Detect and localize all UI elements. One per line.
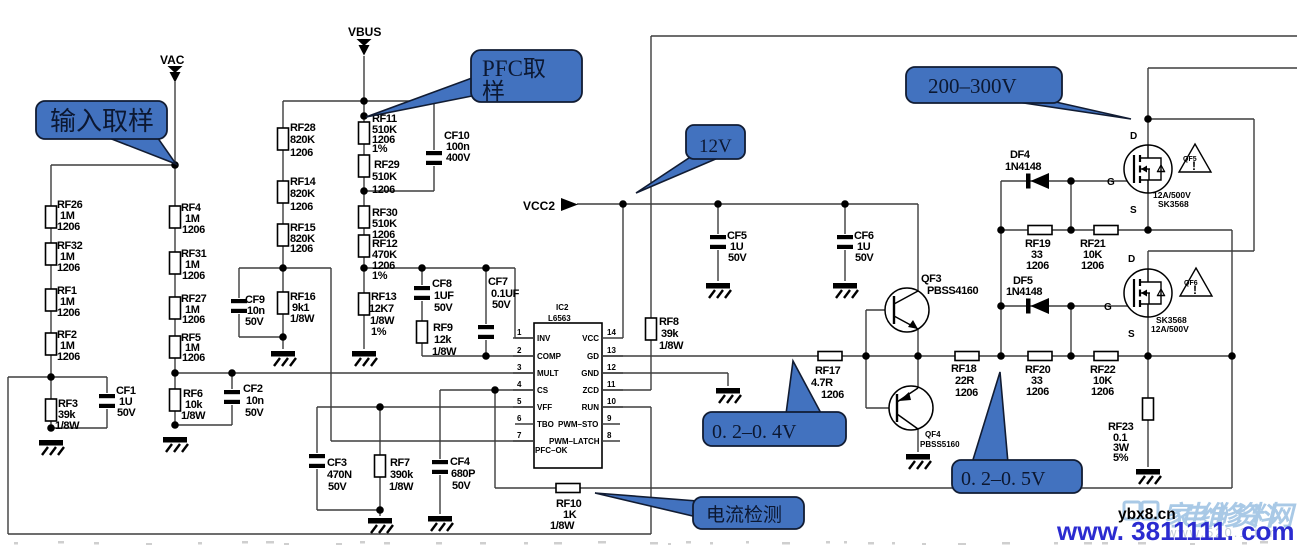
resistor RF2: [46, 329, 81, 363]
svg-text:QF5: QF5: [1183, 156, 1197, 163]
wire RUN drop: [602, 407, 651, 534]
wire col4 tap row to INV: [364, 268, 534, 338]
resistor RF26: [46, 199, 83, 233]
svg-text:S: S: [1130, 205, 1137, 216]
svg-text:12: 12: [607, 363, 616, 372]
node RF3 bottom: [47, 424, 55, 432]
callout 12V: [636, 125, 745, 193]
pin 9 PWM-STO: [558, 414, 620, 429]
resistor RF10: [550, 484, 582, 533]
callout 0.2-0.5V: [952, 372, 1082, 493]
node RF20 RF22 mid: [1067, 352, 1075, 360]
resistor RF18: [951, 352, 979, 400]
node base bus tap: [862, 352, 870, 360]
svg-text:CS: CS: [537, 386, 549, 395]
resistor RF23: [1108, 398, 1154, 464]
ground under CF6: [833, 283, 858, 298]
resistor RF14: [278, 176, 317, 213]
wire QF3 emitter to junction: [917, 329, 919, 356]
svg-text:0. 2–0. 5V: 0. 2–0. 5V: [961, 468, 1046, 490]
svg-text:14: 14: [607, 328, 616, 337]
node right bus tap: [1228, 352, 1236, 360]
node VAC port: [160, 53, 185, 83]
svg-text:VBUS: VBUS: [348, 25, 381, 39]
bottom cropped text row: [14, 541, 1268, 545]
node RF7 bottom: [376, 506, 384, 514]
svg-text:1N4148: 1N4148: [1006, 286, 1042, 298]
resistor RF29: [359, 155, 400, 196]
svg-text:RF28820K1206: RF28820K1206: [290, 122, 316, 159]
wire MULT line pin3: [175, 372, 534, 374]
svg-text:SK3568: SK3568: [1158, 199, 1189, 209]
wire CF6 leg: [844, 204, 846, 281]
wire CF5 leg: [717, 204, 719, 281]
node drain1: [1144, 115, 1152, 123]
node VBUS port: [348, 25, 381, 56]
svg-text:QF3: QF3: [921, 273, 941, 285]
svg-text:IC2: IC2: [556, 303, 569, 312]
wire base bus QF3 QF4: [866, 310, 897, 408]
svg-text:PWM–STO: PWM–STO: [558, 420, 598, 429]
warning triangle QF6: [1180, 268, 1212, 297]
svg-text:G: G: [1104, 302, 1112, 313]
node CF7 bottom COMP: [482, 352, 490, 360]
wire drain parallel loop: [1148, 119, 1254, 251]
wire CF9 branch: [239, 268, 283, 337]
svg-text:5: 5: [517, 397, 522, 406]
svg-text:RUN: RUN: [582, 403, 600, 412]
node drive column top: [997, 352, 1005, 360]
node RF7 top VFF: [376, 403, 384, 411]
wire gate1 divider link: [1070, 181, 1072, 230]
ground IC GND pin: [716, 388, 741, 403]
wire COMP line pin2: [422, 355, 534, 357]
ground under RF16: [271, 351, 296, 366]
node CS sense tap: [491, 386, 499, 394]
svg-text:www. 3811111. com: www. 3811111. com: [1056, 516, 1295, 545]
wire VCC2 rail: [577, 203, 918, 205]
wire RF7 leg: [379, 407, 381, 516]
svg-text:CF81UF50V: CF81UF50V: [432, 278, 454, 314]
resistor RF30: [359, 206, 398, 241]
svg-text:CF10100n400V: CF10100n400V: [444, 130, 471, 164]
diode DF4 1N4148: [1005, 149, 1049, 189]
wire CF2 branch: [175, 373, 232, 425]
wire CF4 branch: [439, 390, 441, 514]
capacitor CF5: [709, 230, 747, 264]
wire QF4 emitter lead: [917, 356, 919, 388]
wire QF4 collector to ground: [917, 429, 919, 452]
resistor RF1: [46, 285, 81, 319]
svg-text:0. 2–0. 4V: 0. 2–0. 4V: [712, 421, 797, 443]
svg-text:GND: GND: [581, 369, 599, 378]
pin 10 RUN: [582, 397, 623, 412]
callout input sample: [36, 101, 176, 164]
node RF19 RF21 mid: [1067, 226, 1075, 234]
svg-text:PFC取: PFC取: [482, 56, 546, 81]
svg-text:电流检测: 电流检测: [706, 504, 782, 526]
svg-text:3: 3: [517, 363, 522, 372]
svg-text:L6563: L6563: [548, 314, 571, 323]
wire column 1 spine: [50, 165, 52, 428]
ground under RF7: [368, 518, 393, 533]
svg-text:2: 2: [517, 346, 522, 355]
svg-text:RF2110K1206: RF2110K1206: [1080, 238, 1106, 272]
svg-text:VCC: VCC: [582, 334, 599, 343]
node DF5 left: [997, 302, 1005, 310]
svg-text:INV: INV: [537, 334, 551, 343]
svg-text:12V: 12V: [699, 136, 732, 157]
callout 0.2-0.4V: [703, 361, 846, 446]
wire QF3 collector riser: [917, 204, 919, 291]
capacitor CF10: [425, 130, 471, 166]
wire CS sense drop: [494, 390, 496, 488]
capacitor CF6: [836, 230, 874, 264]
resistor RF3: [46, 398, 81, 432]
node RF19 left: [997, 226, 1005, 234]
wire bottom bus: [8, 533, 651, 535]
wire RF10 row current sense: [495, 487, 1232, 489]
svg-text:1N4148: 1N4148: [1005, 161, 1041, 173]
node input sample junction: [171, 161, 179, 169]
svg-text:QF6: QF6: [1184, 280, 1198, 287]
svg-text:10: 10: [607, 397, 616, 406]
wire VFF line pin5: [317, 406, 534, 408]
wire DF4 gate row: [1001, 180, 1136, 182]
svg-text:VAC: VAC: [160, 53, 185, 67]
capacitor CF8: [413, 278, 454, 314]
resistor RF31: [170, 248, 207, 282]
wire CS line pin4: [440, 389, 534, 391]
capacitor CF4: [431, 456, 475, 492]
svg-text:TBO: TBO: [537, 420, 554, 429]
resistor RF21: [1080, 226, 1118, 273]
callout current detect: [595, 493, 804, 529]
transistor Q1 QF3 PBSS4160: [885, 273, 979, 332]
node gate2 junction: [1067, 302, 1075, 310]
node RF16 bottom: [279, 333, 287, 341]
diode DF5 1N4148: [1006, 275, 1049, 314]
resistor RF32: [46, 240, 83, 274]
wire RF13 leg: [363, 268, 365, 349]
wire drive node column x1001: [1000, 181, 1002, 356]
svg-text:PFC–OK: PFC–OK: [535, 446, 568, 455]
pin 8: [602, 431, 620, 441]
resistor RF27: [170, 293, 207, 326]
svg-text:CF910n50V: CF910n50V: [245, 294, 265, 328]
resistor RF4: [170, 202, 206, 236]
node RF6 bottom: [171, 421, 179, 429]
node CF8 top: [418, 264, 426, 272]
wire GD drive row pin13: [602, 355, 1232, 357]
wire source row extension: [1148, 230, 1232, 488]
svg-text:RF14820K1206: RF14820K1206: [290, 176, 317, 213]
capacitor CF3: [308, 453, 352, 493]
ground under CF4: [428, 516, 453, 531]
svg-text:D: D: [1128, 254, 1135, 265]
resistor RF5: [170, 332, 206, 364]
pin 7 PWM-LATCH PFC-OK: [513, 431, 600, 455]
pin 3 MULT: [513, 363, 559, 378]
transistor Q2 QF4 PBSS5160: [889, 386, 960, 449]
op-amp U1 IC2 L6563 body: [534, 303, 602, 468]
resistor RF20: [1025, 352, 1052, 399]
svg-text:6: 6: [517, 414, 522, 423]
wire row input-sample node to column 1: [51, 164, 175, 166]
svg-text:S: S: [1128, 329, 1135, 340]
svg-text:1: 1: [517, 328, 522, 337]
resistor RF6: [170, 388, 207, 422]
wire left edge drop: [8, 377, 51, 534]
wire GND pin to ground: [602, 373, 728, 386]
resistor RF11: [359, 113, 398, 155]
svg-text:9: 9: [607, 414, 612, 423]
svg-text:RF2210K1206: RF2210K1206: [1090, 364, 1116, 398]
node col4 tap: [360, 264, 368, 272]
resistor RF12: [359, 235, 398, 282]
svg-text:VCC2: VCC2: [523, 199, 555, 213]
wire column 2 spine: [174, 165, 176, 425]
transistor QF5 mosfet SK3568 upper: [1107, 131, 1191, 216]
svg-text:13: 13: [607, 346, 616, 355]
pin 4 CS: [513, 380, 549, 395]
node source2 RF23 top: [1144, 352, 1152, 360]
pin 1 INV: [513, 328, 551, 343]
wire top row col3-col4: [283, 100, 434, 102]
pin 6 TBO: [515, 414, 554, 429]
wire CF8 RF9 branch: [421, 268, 423, 356]
svg-text:样: 样: [482, 79, 505, 104]
wire CF3 branch: [317, 407, 380, 510]
node emitter junction: [914, 352, 922, 360]
wire mosfet2 drain leg: [1147, 251, 1149, 281]
svg-text:PBSS5160: PBSS5160: [920, 440, 960, 449]
resistor RF28: [278, 122, 316, 159]
node CF6 tap: [841, 200, 849, 208]
resistor RF17: [811, 352, 844, 402]
node col1 divider tap: [47, 373, 55, 381]
pin 5 VFF: [513, 397, 552, 412]
node VCC pin tap: [619, 200, 627, 208]
node col3 tap: [279, 264, 287, 272]
svg-text:4: 4: [517, 380, 522, 389]
wire PWM-LATCH drop: [331, 268, 534, 441]
ground under RF23: [1136, 469, 1161, 484]
wire VBUS column spine: [363, 56, 365, 268]
svg-text:ZCD: ZCD: [583, 386, 600, 395]
svg-text:PWM–LATCH: PWM–LATCH: [549, 437, 600, 446]
resistor RF13: [359, 291, 397, 338]
pin 11 ZCD: [583, 380, 623, 395]
pin 2 COMP: [513, 346, 562, 361]
capacitor CF7: [477, 276, 520, 340]
svg-text:COMP: COMP: [537, 352, 562, 361]
node col2 divider tap: [171, 369, 179, 377]
capacitor CF2: [223, 383, 264, 419]
svg-text:200–300V: 200–300V: [928, 74, 1017, 98]
node source1: [1144, 226, 1152, 234]
node VBUS top tap: [360, 97, 368, 105]
svg-text:PBSS4160: PBSS4160: [927, 285, 979, 297]
node VCC2 port: [523, 198, 578, 213]
wire CF1 branch: [51, 377, 107, 428]
svg-text:RF15820K1206: RF15820K1206: [290, 222, 316, 255]
svg-text:DF4: DF4: [1010, 149, 1031, 161]
wire CF10 branch: [364, 101, 434, 191]
wire gate2 divider link: [1070, 306, 1072, 356]
svg-text:MULT: MULT: [537, 369, 559, 378]
svg-text:D: D: [1130, 131, 1137, 142]
svg-text:VFF: VFF: [537, 403, 552, 412]
wire CF7 branch: [485, 268, 487, 356]
ground under RF13: [352, 351, 377, 366]
wire RF23 leg: [1147, 356, 1149, 467]
node PFC sample point: [360, 112, 368, 120]
resistor RF15: [278, 222, 316, 255]
svg-text:7: 7: [517, 431, 522, 440]
node CF5 tap: [714, 200, 722, 208]
pin 12 GND: [581, 363, 623, 378]
resistor RF16: [278, 291, 316, 325]
wire col3 tap row: [239, 267, 331, 269]
ground under RF3: [39, 440, 64, 455]
node VAC lead wire: [174, 82, 176, 165]
ground under RF6: [163, 437, 188, 452]
wire DF5 gate row: [1001, 305, 1134, 307]
wire RF19 RF21 source row: [1001, 229, 1148, 231]
svg-text:11: 11: [607, 380, 616, 389]
svg-text:GD: GD: [587, 352, 599, 361]
capacitor CF1: [98, 385, 136, 419]
svg-text:12A/500V: 12A/500V: [1151, 324, 1189, 334]
wire top bus: [651, 35, 1297, 37]
wire ZCD to RF8 column: [602, 36, 651, 390]
callout 200-300V: [906, 67, 1131, 119]
warning triangle QF5: [1179, 144, 1211, 173]
svg-text:RF30510K1206: RF30510K1206: [372, 207, 398, 241]
ground under QF4: [906, 454, 931, 469]
capacitor CF9: [230, 294, 265, 328]
svg-text:CF210n50V: CF210n50V: [243, 383, 264, 419]
wire drain1 feed: [1148, 68, 1297, 145]
transistor QF6 mosfet SK3568 lower: [1104, 254, 1189, 340]
svg-text:8: 8: [607, 431, 612, 440]
node CF2 top: [228, 369, 236, 377]
watermark logo: [1124, 502, 1158, 519]
svg-text:输入取样: 输入取样: [50, 107, 154, 136]
wire mosfet1 source leg: [1147, 193, 1149, 230]
pin 14 VCC: [582, 328, 623, 343]
pin 13 GD: [587, 346, 623, 361]
resistor RF7: [375, 455, 415, 493]
node CF7 top: [482, 264, 490, 272]
node RF29 RF30 junction: [360, 187, 368, 195]
resistor RF9: [417, 321, 458, 358]
svg-text:G: G: [1107, 177, 1115, 188]
callout PFC sample: [366, 50, 582, 117]
node gate1 junction: [1067, 177, 1075, 185]
svg-text:QF4: QF4: [925, 430, 941, 439]
resistor RF19: [1025, 226, 1052, 273]
resistor RF8: [646, 316, 685, 352]
resistor RF22: [1090, 352, 1118, 399]
ground under CF5: [706, 283, 731, 298]
wire column 3 spine: [282, 101, 284, 349]
wire mosfet2 source leg: [1147, 317, 1149, 356]
wire VCC pin riser: [622, 204, 624, 338]
